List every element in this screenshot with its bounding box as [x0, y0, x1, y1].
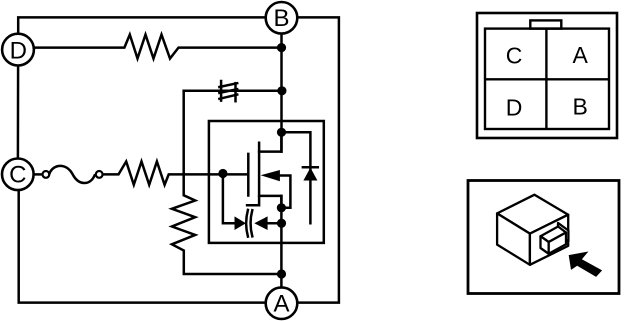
diode D1 branch wire — [282, 132, 311, 223]
zener Z1 right arc — [251, 210, 253, 236]
fusible link F1 slashes — [219, 83, 237, 99]
terminal A — [266, 287, 298, 319]
wire fusible-link branch (left corner down) — [184, 90, 282, 93]
transistor Q1 body arrow head — [261, 170, 280, 181]
small circle 1 (C link) — [43, 171, 50, 178]
relay connector front face — [549, 233, 566, 254]
junction dot fuse wire — [277, 86, 286, 95]
zener Z1 left triangle — [235, 216, 246, 230]
fusible link F1 right bar — [234, 83, 237, 101]
svg-text:D: D — [506, 94, 523, 120]
wavy link wire — [49, 166, 94, 183]
wire outer top-left border (corner to B) — [18, 17, 264, 32]
diode D1 cathode bar — [303, 166, 318, 169]
pointer arrow — [569, 252, 602, 277]
wire from B right to top-right corner and down right border to A — [298, 17, 339, 302]
terminal D — [2, 34, 34, 66]
resistor R2 on C-gate wire — [104, 162, 249, 185]
connector divider horizontal — [485, 78, 609, 80]
svg-text:D: D — [10, 37, 27, 64]
svg-text:C: C — [506, 42, 523, 68]
junction dot below B — [277, 43, 286, 52]
svg-text:A: A — [273, 291, 289, 318]
panel frame — [468, 181, 619, 294]
relay flange plate — [558, 223, 568, 241]
junction dot pulldown node — [277, 269, 286, 278]
wire main vertical B down to drain corner — [280, 35, 283, 152]
fusible link F1 left bar — [220, 81, 223, 101]
svg-text:C: C — [9, 162, 26, 189]
relay box top face — [497, 195, 568, 234]
relay box right face — [530, 215, 568, 265]
zener row wire to main line — [267, 222, 281, 225]
resistor R3 pull-down (vertical) with wires — [172, 91, 282, 274]
transistor Q1 body lead — [279, 176, 290, 208]
transistor Q1 drain lead — [259, 132, 281, 151]
transistor Q1 gate bar — [247, 154, 250, 196]
zener Z1 left arc — [246, 210, 248, 237]
zener Z1 right triangle — [254, 216, 267, 230]
wire C to small circle — [35, 173, 42, 176]
junction dot zener node — [277, 219, 286, 228]
connector inner box — [485, 29, 609, 129]
connector tab — [530, 20, 561, 28]
relay connector top face — [541, 227, 567, 243]
wire bottom border from A left to bottom-left corner and up to C — [19, 191, 265, 302]
relay location panel — [468, 181, 619, 294]
junction dot gate node — [218, 169, 227, 178]
resistor R1 on D-B wire — [35, 35, 281, 59]
junction dot source node — [277, 203, 286, 212]
diode D1 triangle — [303, 168, 317, 181]
wire main vertical source down to A — [280, 196, 283, 287]
connector outer box — [477, 13, 617, 138]
transistor Q1 source lead — [259, 196, 281, 208]
transistor Q1 channel bar with bottom tab — [247, 143, 259, 206]
svg-text:A: A — [573, 42, 589, 68]
relay box left face — [497, 213, 530, 264]
zener row wire from gate junction — [223, 174, 235, 224]
relay connector left face — [541, 236, 549, 254]
svg-text:B: B — [273, 5, 289, 32]
MOSFET package box U1 — [209, 121, 324, 243]
connector pin layout panel — [477, 13, 617, 138]
wire left border C to D — [17, 67, 20, 158]
terminal B — [266, 2, 298, 34]
terminal C — [2, 159, 34, 191]
junction dot drain node — [277, 128, 286, 137]
connector divider vertical — [545, 29, 547, 129]
svg-text:B: B — [573, 93, 588, 119]
small circle 2 (C link) — [96, 171, 103, 178]
